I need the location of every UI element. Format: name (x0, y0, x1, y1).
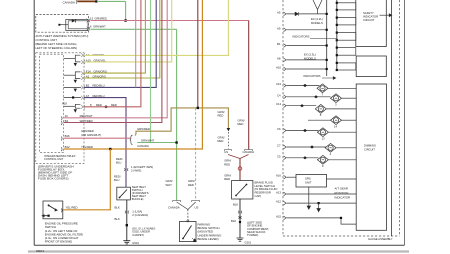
svg-text:BLU: BLU (116, 160, 121, 164)
brackets US / CANADA at GRN/RED ends (225, 150, 232, 152)
wire bulb C4 to dimming box (342, 97, 357, 99)
wire dark red from top to GRN/RED junction (197, 0, 199, 108)
parking brake switch ground arrow (192, 238, 196, 242)
wire bulb C5 to dimming box (328, 159, 356, 161)
integrated control unit dashed box (40, 54, 64, 152)
vertical salmon wire from top (135, 0, 137, 87)
svg-text:C10: C10 (276, 82, 282, 86)
pin B16 of control unit (60, 137, 63, 141)
svg-text:A15: A15 (276, 214, 281, 218)
svg-text:RED: RED (188, 183, 194, 187)
svg-text:A16: A16 (276, 174, 281, 178)
svg-text:C5: C5 (277, 154, 281, 158)
wires merging to brake fluid switch (228, 155, 249, 159)
bulb symbol row C6 (317, 128, 328, 137)
seat belt switch box (117, 187, 131, 200)
pin A18 of control unit (81, 105, 84, 109)
indicator resistor ladder rung 5 (337, 63, 356, 70)
inline connector on A7 wire (124, 168, 128, 171)
svg-text:YEL/RED: YEL/RED (81, 145, 93, 149)
svg-text:A/T GEAR: A/T GEAR (335, 186, 348, 190)
svg-text:A13: A13 (276, 191, 281, 195)
node junction dark red / tan (197, 107, 199, 109)
bracket for CANADA wire (75, 0, 78, 3)
wire GRN/RED-or-GRN/WHT B16 to brace (64, 137, 131, 139)
gauge assembly dashed box bottom edge (283, 235, 400, 237)
wire GRN/YEL A1 (84, 0, 228, 55)
indicator bus 2 (336, 0, 338, 70)
pin B2 of control unit (81, 86, 84, 90)
svg-text:GRN/YEL: GRN/YEL (93, 53, 106, 57)
wire pin C4 to bulb (287, 96, 331, 98)
pin B12 of control unit (60, 147, 63, 151)
svg-text:GAUGE ASSEMBLY: GAUGE ASSEMBLY (368, 237, 393, 241)
wire bulb C10 to dimming box (328, 87, 356, 89)
svg-text:TOWER): TOWER) (247, 233, 258, 237)
svg-text:RED: RED (218, 139, 224, 143)
pin C7 of gauge assembly (284, 145, 287, 149)
dashed continuation below arrow (227, 132, 229, 149)
bulb symbol row 4 (331, 116, 342, 125)
svg-text:CANADA: CANADA (63, 1, 76, 5)
svg-text:6 GRN/WHT: 6 GRN/WHT (90, 25, 106, 29)
pin A7 of control unit (81, 96, 84, 100)
svg-text:YEL/RED: YEL/RED (66, 206, 78, 210)
svg-text:FRONT OF ENGINE): FRONT OF ENGINE) (45, 240, 73, 244)
pin A13 of gauge assembly (284, 192, 287, 196)
bracket pair F14/A2 with continuation arrow (75, 72, 80, 79)
svg-text:CAP): CAP) (255, 194, 262, 198)
wire down from SRS box (307, 187, 310, 209)
wire GRN/WHT main vertical (176, 29, 178, 200)
inline connector on ground wire (238, 211, 242, 214)
svg-text:BLK: BLK (115, 217, 120, 221)
pin C5 of gauge assembly (284, 156, 287, 160)
pin A2 of control unit (81, 76, 84, 80)
wire pin A12 (287, 202, 357, 204)
wire RED/BLU B2 (84, 0, 156, 87)
pin A10 of control unit (81, 60, 84, 64)
svg-text:GRN/WHT: GRN/WHT (141, 139, 155, 143)
anti-theft control unit dashed box (36, 15, 89, 33)
pin A10 of gauge assembly (284, 67, 287, 71)
bulb symbol row C5 (317, 155, 328, 164)
wire to parking brake switch (dashed) (187, 210, 189, 221)
wire GRN/ORG A2 (84, 0, 160, 78)
scan artifact gray band bottom (28, 250, 409, 252)
pin A8 of gauge assembly (284, 58, 287, 62)
arrow from safety indicator to wire (380, 14, 392, 17)
wire stub inside anti-theft unit (59, 24, 68, 26)
wire pin C7 to bulb (287, 146, 327, 148)
wire GRN/RED alternate path (tan) (135, 108, 229, 135)
gauge assembly dashed box left edge (282, 0, 284, 236)
diamond splice on RED wire (104, 105, 108, 108)
svg-text:(OR GRN/WHT): (OR GRN/WHT) (81, 133, 101, 137)
pin B4 of control unit (60, 121, 63, 125)
pin 6 of anti-theft unit (87, 27, 91, 31)
bracket US at dashed green end (192, 201, 200, 203)
node junction on GRN/WHT vertical (175, 141, 177, 143)
svg-text:UNIT: UNIT (305, 181, 312, 185)
svg-text:2 (CANADA): 2 (CANADA) (132, 213, 148, 217)
indicator bus 1 (326, 0, 328, 76)
stub B2 with continuation arrow (64, 86, 81, 88)
svg-text:MODELS: MODELS (304, 56, 316, 60)
svg-text:US: US (195, 205, 199, 209)
wire WHT/RED B4 (64, 0, 162, 123)
svg-text:B1: B1 (277, 42, 281, 46)
pin B10 of control unit (60, 117, 63, 121)
svg-text:B12: B12 (65, 145, 70, 149)
parking brake switch lever (183, 226, 192, 239)
svg-text:DIMMING: DIMMING (364, 144, 376, 148)
svg-text:G201: G201 (245, 241, 252, 245)
wire bulb C6 to dimming box (328, 131, 356, 133)
svg-text:A18: A18 (62, 101, 67, 105)
wire pin B1 to ladder (287, 45, 327, 47)
svg-text:CIRCUIT: CIRCUIT (364, 148, 375, 152)
wire pin C10 to bulb (287, 85, 320, 87)
vertical green wire from top (150, 0, 152, 143)
wire GRN/RED canada vertical (248, 21, 250, 150)
wire bulb C12 to dimming box (326, 108, 356, 110)
pin C6 of gauge assembly (284, 129, 287, 133)
indicator resistor ladder rung 3 (337, 33, 356, 41)
svg-text:B16: B16 (65, 134, 70, 138)
anti-theft inner relay box (66, 20, 88, 31)
wire pin A10 to bus (287, 68, 327, 70)
node junction on seat belt ground wire (126, 224, 128, 226)
node junction on A12 wire (318, 202, 320, 204)
diode symbol inside anti-theft unit (68, 20, 87, 22)
vertical wire right of boxes (391, 0, 393, 236)
pin A5 of gauge assembly (284, 12, 287, 16)
junction dot on ground wire (239, 221, 241, 223)
dimming circuit box 3 (356, 84, 386, 230)
svg-text:CARPET): CARPET) (132, 233, 144, 237)
svg-text:CIRCUIT: CIRCUIT (363, 18, 375, 22)
wire brake fluid switch to ground (239, 199, 241, 238)
node junction dot brown/green (95, 0, 97, 2)
svg-text:C7: C7 (277, 144, 281, 148)
pin C12 of gauge assembly (284, 104, 287, 108)
wire seat belt switch to ground (126, 200, 128, 241)
svg-text:WHT: WHT (166, 183, 173, 187)
svg-text:A1: A1 (86, 53, 90, 57)
pin A15 of gauge assembly (284, 216, 287, 220)
pin B1 of gauge assembly (284, 44, 287, 48)
svg-text:14: 14 (334, 124, 338, 128)
pin A1 of control unit (81, 53, 84, 57)
node square on A15 wire (340, 217, 342, 219)
wire pin A9 to ladder (287, 29, 327, 31)
svg-text:LEFT OF STEERING COLUMN): LEFT OF STEERING COLUMN) (35, 46, 77, 50)
bulb symbol row C7 (325, 143, 336, 152)
SRS unit box (296, 175, 327, 188)
svg-text:BUCKLE): BUCKLE) (132, 197, 144, 201)
wires merging to parking brake switch (177, 202, 196, 210)
bracket CANADA at green wire end (173, 201, 181, 203)
svg-text:INDICATOR: INDICATOR (335, 196, 351, 200)
svg-text:INDICATORS: INDICATORS (293, 35, 310, 39)
svg-text:BLK: BLK (233, 203, 238, 207)
wire green to GRN/RED junction (horizontal) (97, 0, 126, 2)
brake fluid level switch box (232, 181, 253, 200)
bulb symbol row C10 (317, 84, 328, 93)
oil pressure switch contacts (48, 204, 50, 206)
pin F14 of control unit (81, 71, 84, 75)
svg-text:FUSE BOX COVERS): FUSE BOX COVERS) (38, 176, 69, 180)
pin C10 of gauge assembly (284, 84, 287, 88)
svg-text:INDICATORS: INDICATORS (304, 74, 321, 78)
indicator resistor ladder rung 1 (337, 3, 356, 10)
inline connector on seat belt ground wire (125, 211, 129, 214)
wire RED/WHT B10 (64, 0, 168, 118)
svg-text:US: US (224, 150, 228, 154)
wire bulb C7 to dimming box (336, 147, 356, 149)
pin A12 of gauge assembly (284, 201, 287, 205)
oil pressure switch ground contact (43, 215, 49, 217)
svg-text:A8: A8 (277, 56, 281, 60)
wire pin A15 hook to dimming box (287, 218, 357, 224)
pin 13 of anti-theft unit (87, 19, 91, 23)
pin A9 of gauge assembly (284, 28, 287, 32)
wire GRN/ORG F14 (84, 0, 145, 73)
svg-text:C6: C6 (277, 127, 281, 131)
pin C4 of gauge assembly (284, 95, 287, 99)
indicator resistor ladder rung 2 (337, 18, 356, 25)
svg-text:G501: G501 (132, 241, 139, 245)
wire pin C5 to bulb (287, 157, 319, 159)
svg-text:A9: A9 (277, 26, 281, 30)
wire pin A16 to SRS box (287, 176, 297, 178)
wire YEL/RED B12 orange (64, 0, 203, 149)
page frame right border (404, 0, 406, 245)
parking brake switch box (180, 222, 197, 242)
wire green to GRN/RED junction (vertical) (125, 1, 127, 20)
safety indicator box 1 (356, 0, 387, 47)
svg-text:BLK: BLK (231, 219, 236, 223)
bus junction squares (336, 2, 338, 4)
node junction dot on GRN/RED wire (124, 19, 126, 21)
svg-text:13: 13 (322, 136, 326, 140)
wire pin C6 to bulb (287, 130, 319, 132)
svg-text:CANADA: CANADA (243, 150, 255, 154)
brake fluid switch lever (236, 185, 247, 196)
ground G201 (237, 238, 244, 241)
wire pin C12 to bulb (287, 105, 317, 107)
fuse relay box outer dashed box (36, 53, 84, 164)
wire SRS box to dimming box (327, 178, 357, 180)
svg-text:RED: RED (224, 177, 230, 181)
svg-text:A10: A10 (276, 66, 281, 70)
bracket pair A1/A10 with continuation arrow (75, 55, 80, 62)
svg-text:BRAKE LEVER): BRAKE LEVER) (198, 237, 219, 241)
wire RED/BLU A7 down to seat belt switch (84, 98, 126, 188)
oil pressure switch pin (60, 209, 63, 213)
svg-text:BLK: BLK (115, 206, 120, 210)
bulb symbol row C12 (315, 105, 326, 114)
seat belt switch lever (120, 190, 128, 198)
svg-text:CONTROL UNIT: CONTROL UNIT (44, 157, 64, 161)
parking brake switch pin circle (187, 220, 189, 222)
svg-text:RED: RED (218, 113, 224, 117)
wire GRN/RED main horizontal (91, 20, 249, 22)
safety indicator box 2 (356, 56, 386, 77)
svg-text:A12: A12 (276, 200, 281, 204)
diode on A5 wire (295, 12, 298, 16)
svg-text:C12: C12 (276, 102, 282, 106)
oil pressure switch lever (49, 205, 56, 210)
oil pressure switch box (43, 201, 63, 219)
pin A16 of gauge assembly (284, 175, 287, 179)
bracket A18 with continuation arrow (75, 104, 80, 108)
brace splitting alternate wires (130, 135, 133, 144)
svg-text:CANADA: CANADA (168, 205, 180, 209)
svg-text:93E13: 93E13 (36, 249, 45, 253)
svg-text:C4: C4 (277, 93, 281, 97)
wire GRN/WHT main horizontal (91, 28, 177, 30)
svg-text:GRN/RED: GRN/RED (137, 127, 150, 131)
wire GRN/RED down to brake fluid switch (239, 158, 241, 181)
svg-text:MODELS: MODELS (311, 21, 323, 25)
node junction on YEL/RED (109, 148, 111, 150)
wire brown (Canada feed) (77, 0, 96, 2)
arrow terminal of GRN/RED alternate (227, 128, 231, 131)
stub A7 with junction dot (64, 97, 81, 99)
funnel merge symbol (313, 0, 322, 14)
wire pin A13 (287, 193, 357, 195)
wire bulb row4 to dimming box (342, 119, 357, 121)
wire pin A8 to ladder (287, 59, 327, 61)
bulb symbol row C4 (331, 94, 342, 103)
splice circle symbol (238, 167, 242, 171)
svg-text:RED: RED (238, 122, 244, 126)
svg-text:RED: RED (224, 162, 230, 166)
svg-text:BLU: BLU (114, 178, 119, 182)
indicator resistor ladder rung 4 (337, 48, 356, 56)
wire GRN/RED dashed (US) down (195, 108, 197, 201)
page frame left border (33, 0, 35, 245)
stub with arrow from A12 wire (317, 203, 320, 212)
splice star symbol (238, 216, 241, 220)
wire RED A18 (84, 0, 141, 107)
wire GRN/YEL A10 (84, 0, 172, 62)
svg-text:CANADA: CANADA (137, 144, 149, 148)
page frame bottom border (34, 244, 404, 246)
svg-text:2 (4WS): 2 (4WS) (131, 168, 141, 172)
wire pin A5 to bus (287, 13, 327, 15)
wire YEL/RED branch to oil pressure switch (63, 149, 110, 210)
gauge assembly dashed box right edge (399, 0, 401, 236)
ground G501 (123, 241, 130, 244)
wire GRN/WHT alternate (brace lower arm) (137, 142, 176, 144)
svg-text:A5: A5 (277, 10, 281, 14)
